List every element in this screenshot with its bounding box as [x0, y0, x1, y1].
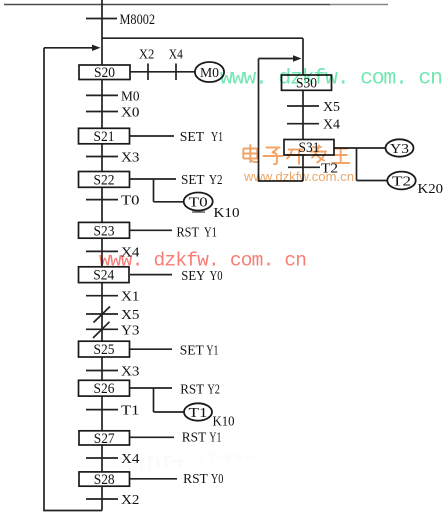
step box S21 [79, 128, 130, 145]
wire: arrow into right branch [259, 55, 302, 61]
svg-text:X5: X5 [121, 308, 140, 323]
svg-text:T0: T0 [121, 194, 140, 209]
wire: action rung [130, 348, 172, 350]
svg-text:X2: X2 [121, 493, 140, 508]
wire: right branch vertical [302, 38, 304, 181]
wire: action rung [130, 436, 174, 438]
svg-text:SETY2: SETY2 [181, 173, 223, 188]
step box S23 [79, 222, 130, 239]
transition contact T0 [86, 199, 118, 201]
svg-text:X1: X1 [121, 290, 140, 305]
transition contact T2 [288, 166, 320, 168]
coil Y3 [386, 139, 414, 157]
contact X4 (vertical bar) [175, 64, 177, 81]
svg-text:X5: X5 [323, 100, 340, 115]
wire: arrow into main trunk [44, 45, 101, 51]
T0 underline artifact [192, 211, 205, 213]
svg-text:S25: S25 [94, 342, 115, 358]
svg-text:SETY1: SETY1 [180, 343, 219, 358]
transition contact X5 [86, 307, 118, 323]
step box S27 [79, 431, 130, 447]
wire: top horizontal to right branch [102, 37, 303, 39]
step box S25 [79, 341, 130, 358]
wire: action rung [130, 229, 172, 231]
transition contact M0 [86, 94, 118, 96]
wire: action rung [130, 478, 177, 480]
wire: action rung [130, 135, 174, 137]
contact X2 (vertical bar) [147, 64, 149, 81]
svg-text:RSTY1: RSTY1 [182, 430, 222, 445]
svg-text:X3: X3 [121, 365, 140, 380]
wire: S22 timer branch [154, 179, 184, 202]
svg-text:T1: T1 [121, 404, 140, 419]
step box S31 [284, 140, 334, 157]
svg-text:K10: K10 [214, 205, 240, 220]
wire: S31 timer branch to T2 [357, 148, 388, 181]
svg-text:S28: S28 [94, 472, 115, 488]
svg-text:S27: S27 [94, 431, 115, 447]
svg-text:T2: T2 [392, 175, 411, 190]
transition contact X5 (right branch) [287, 105, 319, 107]
svg-text:www.dzkfw.com.cn: www.dzkfw.com.cn [243, 170, 354, 184]
step box S28 [79, 472, 130, 488]
svg-text:SETY1: SETY1 [180, 130, 223, 145]
svg-text:X0: X0 [121, 106, 140, 121]
svg-text:X3: X3 [121, 151, 140, 166]
wire: action rung [130, 178, 176, 180]
step box S20 [79, 65, 130, 81]
svg-text:Y3: Y3 [121, 323, 140, 338]
wire: action rung [130, 387, 172, 389]
transition contact X1 [86, 295, 118, 297]
svg-text:RSTY2: RSTY2 [180, 382, 220, 397]
transition contact X3 [86, 156, 118, 158]
wire: action rung [130, 274, 172, 276]
transition contact X4 [86, 250, 118, 252]
coil T2 [387, 172, 415, 190]
wire: main trunk vertical [101, 0, 103, 511]
wire: left return loop (S28 back to top) [43, 48, 102, 511]
transition contact X4 [86, 457, 118, 459]
svg-text:S23: S23 [94, 223, 115, 239]
svg-text:M0: M0 [200, 66, 219, 81]
svg-text:X4: X4 [323, 118, 340, 133]
svg-text:T1: T1 [189, 406, 208, 421]
coil T0 [184, 193, 213, 211]
step box S22 [79, 172, 130, 189]
transition contact M8002 [86, 18, 117, 20]
svg-text:X2: X2 [139, 48, 155, 63]
svg-text:S22: S22 [94, 172, 115, 188]
svg-text:K20: K20 [418, 181, 444, 196]
wire: S26 timer branch [154, 388, 185, 412]
svg-text:X4: X4 [121, 452, 140, 467]
step box S26 [79, 380, 130, 397]
svg-text:RSTY0: RSTY0 [183, 472, 223, 487]
ghost smudge 1 [142, 457, 185, 470]
svg-text:M8002: M8002 [120, 12, 156, 28]
transition contact X3 [86, 370, 118, 372]
ghost smudge 2 [202, 454, 253, 467]
svg-text:M0: M0 [121, 89, 140, 104]
svg-text:RSTY1: RSTY1 [177, 225, 218, 240]
svg-text:www. dzkfw. com. cn: www. dzkfw. com. cn [220, 67, 443, 91]
svg-text:T0: T0 [189, 196, 208, 211]
svg-text:Y3: Y3 [390, 142, 409, 157]
top page rule line [4, 4, 388, 6]
transition contact Y3 [86, 322, 118, 338]
coil T1 [184, 403, 212, 421]
step box S24 [79, 267, 130, 284]
step box S30 [282, 75, 332, 92]
coil M0 [195, 62, 224, 82]
svg-text:K10: K10 [213, 414, 235, 429]
wire: right branch return loop [258, 59, 303, 182]
transition contact X4 (right branch) [287, 123, 319, 125]
wire: S31 output rung to Y3 [334, 147, 386, 149]
transition contact T1 [86, 409, 118, 411]
svg-text:S21: S21 [94, 129, 115, 145]
svg-text:S26: S26 [94, 381, 115, 397]
svg-text:www. dzkfw. com. cn: www. dzkfw. com. cn [99, 250, 307, 272]
transition contact X2 [86, 498, 118, 500]
wire: S20 output rung [130, 71, 196, 73]
transition contact X0 [86, 111, 118, 113]
watermark orange chinese characters [243, 145, 349, 164]
svg-text:X4: X4 [169, 48, 183, 63]
svg-text:S20: S20 [94, 65, 115, 81]
